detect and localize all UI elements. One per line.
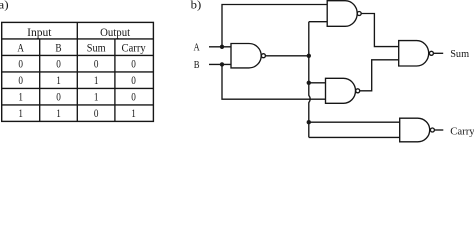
truth table outer border xyxy=(2,22,154,121)
wire U2 output to U4 top input xyxy=(361,14,399,47)
table row 1: 0 0 0 0 xyxy=(18,59,136,71)
svg-text:Carry: Carry xyxy=(122,43,146,55)
svg-text:A: A xyxy=(194,42,201,53)
svg-text:0: 0 xyxy=(94,108,99,120)
svg-text:b): b) xyxy=(191,0,202,12)
junction A xyxy=(220,45,224,49)
wire Carry output xyxy=(435,129,444,131)
nand gate U5 (Carry) xyxy=(400,118,435,142)
nand gate U4 (Sum) xyxy=(399,41,434,66)
svg-text:1: 1 xyxy=(56,75,61,87)
junction node N1 xyxy=(307,54,311,58)
svg-text:0: 0 xyxy=(131,75,136,87)
junction N1 at U3 branch xyxy=(307,81,311,85)
table row 3: 1 0 1 0 xyxy=(18,92,136,104)
svg-text:1: 1 xyxy=(56,108,61,120)
wire A input xyxy=(209,46,231,48)
wire B branch down to gate U3 xyxy=(222,64,326,99)
nand gate U3 xyxy=(326,78,360,103)
svg-text:0: 0 xyxy=(56,59,61,71)
wire N1 to U3 top input xyxy=(309,82,326,84)
junction B xyxy=(220,62,224,66)
svg-text:a): a) xyxy=(0,0,9,12)
nand gate U1 xyxy=(231,44,265,68)
svg-text:0: 0 xyxy=(56,92,61,104)
svg-text:0: 0 xyxy=(18,75,23,87)
table row 2: 0 1 1 0 xyxy=(18,75,136,87)
wire U3 output to U4 bottom input xyxy=(360,60,399,91)
junction N1 at carry branch xyxy=(307,120,311,124)
nand gate U2 xyxy=(327,1,361,27)
wire N1 vertical with crossover jog xyxy=(309,22,310,138)
truth table vertical grid lines xyxy=(40,22,115,121)
svg-text:Input: Input xyxy=(27,27,52,39)
wire N1 to U2 bottom input xyxy=(309,21,327,23)
svg-text:0: 0 xyxy=(131,92,136,104)
wire N1 to U5 top input xyxy=(309,121,400,123)
svg-text:1: 1 xyxy=(18,108,23,120)
svg-text:0: 0 xyxy=(18,59,23,71)
svg-text:0: 0 xyxy=(94,59,99,71)
svg-text:Output: Output xyxy=(100,27,131,39)
truth table horizontal grid lines xyxy=(2,39,154,105)
svg-text:Sum: Sum xyxy=(450,48,469,60)
wire Sum output xyxy=(434,52,444,54)
svg-text:1: 1 xyxy=(131,108,136,120)
wire N1 to U5 bottom input xyxy=(309,136,400,138)
svg-text:Sum: Sum xyxy=(87,43,106,55)
wire A branch up to top xyxy=(222,5,327,47)
wire B input xyxy=(209,63,231,65)
svg-text:1: 1 xyxy=(94,92,99,104)
svg-text:Carry: Carry xyxy=(450,125,474,137)
svg-text:B: B xyxy=(194,60,200,71)
table row 4: 1 1 0 1 xyxy=(18,108,136,120)
svg-text:0: 0 xyxy=(131,59,136,71)
svg-text:B: B xyxy=(55,43,61,55)
svg-text:A: A xyxy=(17,43,24,55)
svg-text:1: 1 xyxy=(94,75,99,87)
wire U1 output to node N1 xyxy=(266,55,309,57)
svg-text:1: 1 xyxy=(18,92,23,104)
